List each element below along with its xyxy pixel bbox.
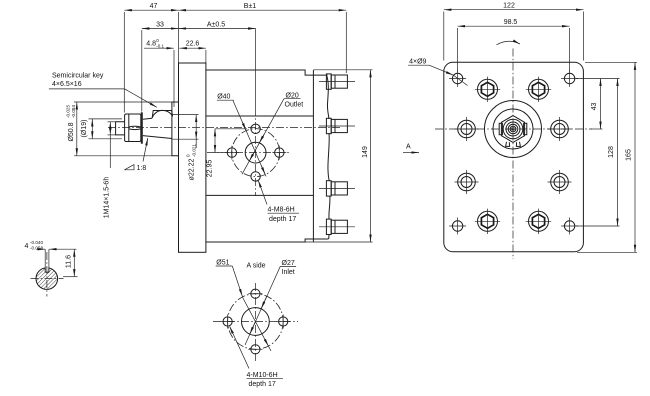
port hole right bbox=[272, 146, 286, 160]
dimension 4 -0.040/-0.058 bbox=[25, 240, 77, 268]
shaft bottom tabs bbox=[506, 142, 521, 147]
dimension A±0.5 bbox=[179, 21, 256, 28]
dimension 47 bbox=[124, 3, 178, 112]
hexagon side flats bbox=[499, 123, 502, 134]
threaded shaft end M14 bbox=[116, 122, 125, 135]
O40 leader diagonal bbox=[233, 101, 266, 177]
bolt 1 centerline bbox=[319, 81, 355, 83]
inlet bore O27 bbox=[242, 308, 270, 336]
detail vertical centerline bbox=[46, 252, 48, 297]
O27 Inlet label bbox=[280, 260, 296, 276]
svg-text:Ø40: Ø40 bbox=[217, 93, 230, 100]
front plate bbox=[444, 62, 584, 251]
dimension 149 bbox=[305, 70, 372, 242]
dimension 43 bbox=[576, 79, 620, 130]
svg-text:B±1: B±1 bbox=[244, 3, 257, 10]
svg-text:11.6: 11.6 bbox=[65, 255, 72, 268]
svg-text:Semicircular key: Semicircular key bbox=[52, 72, 104, 79]
detail horizontal centerline bbox=[31, 278, 64, 280]
svg-text:-0.058: -0.058 bbox=[30, 245, 43, 250]
corner hole BL bbox=[449, 218, 466, 235]
washer bbox=[141, 112, 143, 143]
O20 Outlet label bbox=[284, 93, 303, 109]
4-M10-6H depth 17 label bbox=[247, 372, 284, 388]
M10 hole right bbox=[276, 315, 290, 329]
M10 hole top bbox=[248, 289, 262, 298]
svg-text:Inlet: Inlet bbox=[282, 269, 295, 276]
bolt 2 centerline bbox=[319, 125, 355, 127]
corner hole BR bbox=[561, 218, 578, 235]
semicircular key bbox=[152, 110, 172, 117]
dimension 122 bbox=[444, 3, 584, 61]
4-M8 leader bbox=[258, 180, 267, 204]
pilot spigot O50.8 bbox=[172, 102, 179, 156]
svg-text:33: 33 bbox=[156, 21, 164, 28]
svg-text:A side: A side bbox=[247, 263, 266, 270]
bolt 4 centerline bbox=[319, 226, 355, 228]
svg-text:depth 17: depth 17 bbox=[249, 381, 276, 388]
4-M8-6H depth 17 label bbox=[268, 207, 300, 223]
M10 hole bottom bbox=[248, 345, 262, 354]
outlet port horizontal centerline bbox=[207, 152, 291, 154]
dimension 11.6 bbox=[63, 249, 78, 277]
4-M10 leader bbox=[230, 326, 249, 368]
side hole mid-left-upper bbox=[455, 117, 479, 141]
svg-text:149: 149 bbox=[362, 146, 369, 158]
svg-text:-0.084: -0.084 bbox=[71, 105, 76, 118]
svg-text:22.6: 22.6 bbox=[186, 40, 200, 47]
dimension 4.8 0/-0.1 bbox=[144, 38, 174, 107]
bolt 4 hex head bbox=[326, 219, 347, 234]
gear chamber lines bbox=[206, 115, 314, 117]
port hole bottom bbox=[251, 172, 260, 181]
svg-text:-0.021: -0.021 bbox=[191, 144, 196, 157]
corner hole TR bbox=[561, 70, 578, 87]
front vertical centerline bbox=[512, 49, 514, 260]
taper 1:8 label bbox=[125, 138, 148, 172]
svg-text:0: 0 bbox=[156, 38, 159, 43]
svg-text:165: 165 bbox=[626, 149, 633, 161]
label 4xO9 bbox=[408, 59, 467, 86]
svg-text:4-M8-6H: 4-M8-6H bbox=[268, 207, 295, 214]
dimension 33 bbox=[142, 21, 179, 111]
svg-text:-0.040: -0.040 bbox=[30, 240, 43, 245]
outlet bore O20 bbox=[245, 142, 266, 163]
dimension 165 bbox=[577, 62, 637, 252]
side hole mid-right-lower bbox=[548, 170, 572, 194]
side hole mid-right-upper bbox=[548, 117, 572, 141]
svg-text:47: 47 bbox=[150, 3, 158, 10]
svg-text:-0.1: -0.1 bbox=[156, 44, 164, 49]
keyway slot bbox=[45, 267, 49, 272]
socket screw top-right bbox=[526, 77, 551, 102]
shaft section circle hatched bbox=[36, 268, 58, 290]
dimension 22.95 bbox=[206, 129, 247, 177]
O40 label bbox=[217, 93, 234, 100]
socket screw bottom-right bbox=[526, 209, 551, 234]
socket screw top-left bbox=[475, 77, 500, 102]
shaft nut bbox=[125, 114, 141, 142]
port hole top bbox=[251, 124, 260, 133]
view arrow A bbox=[403, 144, 419, 153]
svg-text:98.5: 98.5 bbox=[504, 19, 518, 26]
center boss circles bbox=[485, 101, 542, 158]
svg-text:4-M10-6H: 4-M10-6H bbox=[247, 372, 278, 379]
dimension O50.8 -0.025/-0.084 bbox=[65, 102, 172, 156]
svg-text:Ø50.8: Ø50.8 bbox=[68, 122, 75, 141]
outlet port vertical extension/centerline bbox=[255, 29, 257, 109]
M10 hole left bbox=[221, 315, 235, 329]
svg-text:1:8: 1:8 bbox=[137, 165, 147, 172]
svg-text:A±0.5: A±0.5 bbox=[207, 21, 225, 28]
svg-text:4: 4 bbox=[25, 243, 29, 250]
dimension 128 bbox=[576, 79, 620, 227]
bolt 3 centerline bbox=[319, 187, 355, 189]
svg-text:Outlet: Outlet bbox=[285, 102, 304, 109]
svg-text:22.95: 22.95 bbox=[206, 160, 213, 178]
bolt 3 hex head bbox=[326, 181, 347, 196]
dimension 1M14x1.5-6h bbox=[103, 122, 115, 218]
mounting flange plate bbox=[179, 63, 206, 252]
svg-text:depth 17: depth 17 bbox=[269, 216, 296, 223]
shaft centerline bbox=[108, 126, 342, 128]
svg-text:4×Ø9: 4×Ø9 bbox=[409, 59, 426, 66]
port hole left bbox=[225, 146, 239, 160]
bottom view vertical centerline bbox=[254, 283, 256, 361]
dimension 98.5 bbox=[458, 19, 570, 71]
svg-text:(Ø19): (Ø19) bbox=[81, 120, 88, 138]
rear cover cast edge bbox=[327, 75, 330, 239]
bottom view horizontal centerline bbox=[213, 321, 298, 323]
front horizontal centerline bbox=[435, 128, 592, 130]
rotation arrow bbox=[497, 41, 521, 45]
outlet bolt circle O40 bbox=[232, 129, 280, 177]
semicircular key label bbox=[49, 72, 157, 107]
corner hole TL bbox=[449, 70, 466, 87]
svg-text:122: 122 bbox=[503, 3, 515, 10]
bolt circle O51 bbox=[228, 294, 284, 350]
svg-text:-0.025: -0.025 bbox=[65, 105, 70, 118]
bolt 1 hex head bbox=[326, 74, 347, 89]
dimension ø22.22 0/-0.021 bbox=[173, 115, 199, 181]
shaft concentric circles bbox=[503, 119, 523, 139]
O27 leader diagonal bbox=[245, 267, 280, 346]
svg-text:A: A bbox=[406, 144, 411, 151]
bolt 2 hex head bbox=[326, 118, 347, 133]
svg-text:0: 0 bbox=[186, 154, 191, 157]
side hole mid-left-lower bbox=[455, 170, 479, 194]
svg-text:4.8: 4.8 bbox=[146, 40, 156, 47]
O51 leader diagonal bbox=[232, 266, 271, 351]
dimension (O19) bbox=[81, 119, 122, 139]
O51 label bbox=[216, 260, 233, 267]
svg-text:128: 128 bbox=[608, 146, 615, 158]
body/cover joint bbox=[312, 70, 314, 242]
svg-text:1M14×1.5-6h: 1M14×1.5-6h bbox=[103, 177, 110, 219]
dimension B±1 bbox=[179, 3, 347, 73]
socket screw bottom-left bbox=[475, 209, 500, 234]
shaft hexagon bbox=[501, 116, 524, 143]
tapered shaft bbox=[143, 118, 172, 138]
pump body outline bbox=[206, 70, 329, 242]
O20 leader diagonal bbox=[242, 99, 284, 175]
svg-text:4×6.5×16: 4×6.5×16 bbox=[52, 81, 82, 88]
svg-text:ø22.22: ø22.22 bbox=[188, 158, 195, 180]
svg-text:43: 43 bbox=[591, 103, 598, 111]
dimension 22.6 bbox=[179, 40, 206, 63]
